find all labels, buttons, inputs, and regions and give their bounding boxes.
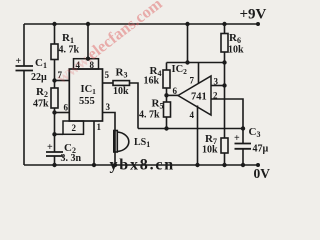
wire pin2 (741) to C3 <box>211 99 243 144</box>
resistor R1 body <box>51 44 58 60</box>
node pin3 (741) / R6R7 divider <box>222 83 226 87</box>
node C2 / ground rail <box>52 163 56 167</box>
svg-text:3. 3n: 3. 3n <box>61 153 82 164</box>
wire IC2 supply drop <box>187 24 189 63</box>
svg-text:5: 5 <box>105 70 110 80</box>
node C3 / ground rail <box>241 163 245 167</box>
node R2/C2/pin6 <box>52 110 56 114</box>
wire 555 Vcc (pins 4,8) to top rail <box>87 24 89 59</box>
svg-text:7: 7 <box>190 76 195 86</box>
wire pin2 (555) <box>55 133 64 135</box>
wire op-amp output to node <box>167 94 179 96</box>
wire control-voltage net <box>138 128 243 130</box>
svg-text:10k: 10k <box>113 86 129 97</box>
svg-text:6: 6 <box>64 103 69 113</box>
node +9V terminal <box>256 22 260 26</box>
node C2/pin2 <box>52 132 56 136</box>
wire C2 bottom lead <box>54 156 56 165</box>
wire R6 bottom to R7 <box>224 52 226 138</box>
svg-text:741: 741 <box>191 92 207 103</box>
wire left branch lower (C1 bottom lead) <box>23 71 25 166</box>
svg-text:6: 6 <box>173 86 178 96</box>
speaker LS1 body <box>114 131 118 153</box>
wire R2 bottom to C2 <box>54 108 56 152</box>
node speaker / ground rail <box>113 163 117 167</box>
node pin1 / ground rail <box>92 163 96 167</box>
svg-text:16k: 16k <box>144 76 160 87</box>
svg-text:2: 2 <box>213 91 218 101</box>
node IC2 supply corner <box>185 60 189 64</box>
svg-text:ybx8.cn: ybx8.cn <box>110 157 176 174</box>
capacitor C1 plates <box>16 65 34 67</box>
svg-text:47k: 47k <box>33 99 49 110</box>
wire R3 right lead <box>130 83 139 129</box>
svg-text:555: 555 <box>79 96 95 107</box>
svg-text:22µ: 22µ <box>31 72 47 83</box>
svg-text:+: + <box>16 56 22 67</box>
svg-text:47µ: 47µ <box>253 144 269 155</box>
node C3 / CV wire <box>241 126 245 130</box>
capacitor C2 plates <box>46 151 63 153</box>
wire R1-R2 link <box>54 60 56 89</box>
node 0V terminal <box>256 163 260 167</box>
wire pin6 (555) <box>55 112 70 114</box>
svg-text:10k: 10k <box>202 145 218 156</box>
node R1/R2/pin7 <box>52 78 56 82</box>
wire R4-top / R6-bottom net <box>167 62 225 64</box>
node top rail / R1 <box>52 22 56 26</box>
wire top rail <box>24 23 258 25</box>
resistor R7 body <box>221 138 228 153</box>
resistor R6 body <box>221 34 228 53</box>
wire pin5 (555) to R3 <box>103 82 114 84</box>
wire pin1 (555) to ground <box>93 121 95 165</box>
op-amp U2 741 triangle <box>178 76 211 115</box>
speaker LS1 dome <box>117 132 129 152</box>
svg-text:+: + <box>234 133 240 144</box>
wire R4-R5 link <box>166 88 168 102</box>
svg-text:4. 7k: 4. 7k <box>139 110 160 121</box>
555 bottom notch (pin 2) <box>63 121 84 134</box>
wire pin4 (741) to ground <box>197 106 199 166</box>
wire pin7 (555) <box>55 80 70 82</box>
node R7 / ground rail <box>222 163 226 167</box>
555 top notch (pins 4,8) <box>74 59 99 69</box>
svg-text:10k: 10k <box>228 45 244 56</box>
node R6 bottom / supply net <box>222 60 226 64</box>
node top rail / 555 Vcc <box>86 22 90 26</box>
resistor R2 body <box>51 88 58 108</box>
node R5 / CV wire <box>164 126 168 130</box>
wire pin3 (555) to speaker <box>103 113 116 166</box>
node R5 bottom / CV net <box>164 93 168 97</box>
svg-text:1: 1 <box>97 122 102 132</box>
wire R6 top lead <box>224 24 226 34</box>
wire pin3 (741) <box>211 85 225 87</box>
resistor R5 body <box>164 102 171 117</box>
node 555 Vcc notch <box>86 57 90 61</box>
svg-text:4: 4 <box>190 110 195 120</box>
resistor R3 body <box>113 81 130 86</box>
node pin4 / ground rail <box>195 163 199 167</box>
svg-text:2: 2 <box>72 123 77 133</box>
node top rail / IC2 supply <box>185 22 189 26</box>
svg-text:0V: 0V <box>254 166 271 181</box>
node top rail / R6 <box>222 22 226 26</box>
wire bottom rail <box>24 164 258 166</box>
svg-text:3: 3 <box>214 77 219 87</box>
op-amp U1 555 main box <box>69 69 102 121</box>
wire R1 top lead <box>54 24 56 44</box>
wire R4 top lead <box>166 63 168 71</box>
svg-text:3: 3 <box>106 102 111 112</box>
wire pin7 (741) <box>198 63 200 84</box>
wire C3 bottom lead <box>242 149 244 165</box>
wire R5 bottom lead <box>166 117 168 129</box>
wire R7 bottom lead <box>224 153 226 165</box>
resistor R4 body <box>163 70 170 88</box>
wire left branch upper (C1 top lead) <box>23 24 25 66</box>
svg-text:+: + <box>47 142 53 153</box>
svg-text:+9V: +9V <box>240 7 267 23</box>
capacitor C3 plates <box>235 143 252 145</box>
